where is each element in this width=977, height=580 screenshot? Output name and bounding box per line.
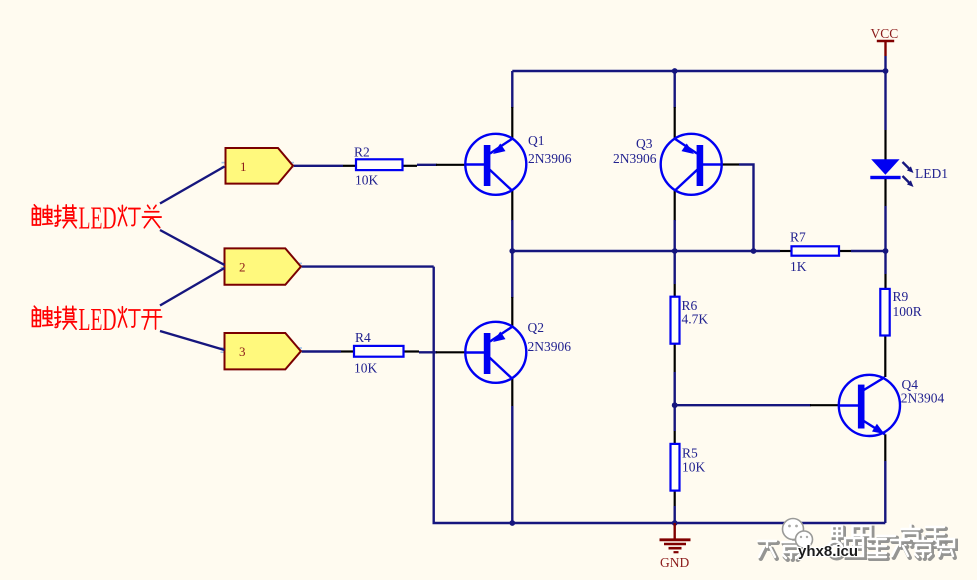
svg-text:2N3906: 2N3906 bbox=[528, 151, 572, 166]
wire LED anode from VCC rail bbox=[884, 71, 886, 160]
svg-text:10K: 10K bbox=[355, 173, 379, 188]
node VCC rail / Q3 junction bbox=[672, 68, 678, 74]
svg-text:GND: GND bbox=[660, 555, 689, 570]
transistor Q3 2N3906 bbox=[661, 134, 722, 195]
svg-text:Q3: Q3 bbox=[636, 136, 653, 151]
watermark row 头条@硬件大不同 bbox=[758, 537, 956, 560]
wire R4 to Q2 base bbox=[404, 350, 466, 353]
svg-text:R7: R7 bbox=[790, 230, 806, 245]
label 触摸LED灯开 red row2 bbox=[32, 301, 161, 337]
transistor Q4 2N3904 bbox=[839, 375, 900, 436]
svg-text:10K: 10K bbox=[682, 459, 706, 474]
svg-text:100R: 100R bbox=[893, 304, 922, 319]
transistor Q2 2N3906 bbox=[465, 322, 526, 383]
svg-text:R2: R2 bbox=[354, 145, 370, 160]
wire Q3 base to mid rail bbox=[721, 165, 753, 252]
svg-text:LED: LED bbox=[79, 301, 117, 337]
wire mid rail to Q2 emitter bbox=[511, 251, 513, 327]
wire label line 1 to port1 bbox=[160, 167, 225, 204]
svg-text:1: 1 bbox=[240, 159, 247, 174]
node mid rail / Q3 base junction bbox=[751, 248, 757, 254]
svg-text:Q1: Q1 bbox=[528, 133, 545, 148]
wire node A to Q4 base bbox=[675, 404, 839, 406]
svg-text:2: 2 bbox=[239, 260, 246, 275]
port 3 bbox=[225, 333, 301, 369]
svg-text:1K: 1K bbox=[790, 259, 807, 274]
wire port1 to R2 bbox=[293, 165, 356, 167]
node VCC rail / LED junction bbox=[883, 68, 889, 74]
wire label line 2 to port2 bbox=[160, 230, 225, 265]
svg-text:LED: LED bbox=[79, 200, 117, 236]
svg-text:R5: R5 bbox=[682, 445, 698, 460]
svg-text:R9: R9 bbox=[893, 289, 909, 304]
wire label line 4 to port3 bbox=[160, 331, 225, 350]
wire port3 to R4 bbox=[301, 350, 354, 352]
wire Q3 collector to mid rail bbox=[674, 191, 676, 252]
svg-text:Q2: Q2 bbox=[528, 320, 545, 335]
svg-text:yhx8.icu: yhx8.icu bbox=[798, 543, 858, 560]
wire node A to R5 bbox=[674, 405, 676, 444]
svg-text:LED1: LED1 bbox=[915, 166, 948, 181]
resistor R9 bbox=[880, 289, 889, 336]
wire R2 to Q1 base bbox=[403, 165, 466, 166]
svg-text:2N3906: 2N3906 bbox=[528, 339, 572, 354]
node bottom rail / GND junction bbox=[672, 520, 678, 526]
wire R5 to bottom rail bbox=[674, 491, 676, 523]
node bottom rail / Q2 junction bbox=[509, 520, 515, 526]
wire bottom rail GND net bbox=[434, 267, 886, 523]
wire Q4 emitter to bottom rail bbox=[884, 434, 886, 523]
resistor R5 bbox=[671, 444, 680, 491]
node mid rail / R6 junction bbox=[672, 248, 678, 254]
ground GND symbol bbox=[660, 523, 691, 570]
watermark logo faces bbox=[783, 519, 813, 549]
svg-text:2N3904: 2N3904 bbox=[901, 391, 945, 406]
wire Q2 collector to bottom rail bbox=[511, 379, 513, 524]
wire Q1 collector to mid rail bbox=[511, 191, 513, 252]
resistor R4 bbox=[354, 346, 404, 357]
svg-text:2N3906: 2N3906 bbox=[613, 151, 657, 166]
port 1 bbox=[226, 148, 294, 184]
svg-text:4.7K: 4.7K bbox=[682, 312, 709, 327]
wire port2 horizontal bbox=[301, 265, 434, 267]
wire R6 to node A bbox=[674, 344, 676, 406]
port 2 bbox=[225, 248, 301, 284]
resistor R7 bbox=[792, 246, 840, 255]
watermark row 电路一点通 bbox=[832, 525, 946, 547]
wire LED cathode to mid rail bbox=[884, 179, 886, 251]
wire mid rail to R9 bbox=[884, 251, 886, 289]
svg-text:10K: 10K bbox=[354, 361, 378, 376]
wire top rail VCC net bbox=[512, 70, 885, 72]
wire Q1 emitter vertical bbox=[511, 71, 513, 139]
power symbol VCC bbox=[871, 26, 899, 71]
resistor R2 bbox=[356, 159, 403, 170]
diode LED1 bbox=[870, 159, 913, 187]
wire mid rail to R6 bbox=[674, 251, 676, 297]
label 触摸LED灯关 red row1 bbox=[32, 200, 161, 236]
wire R9 to Q4 collector bbox=[884, 336, 886, 378]
svg-text:3: 3 bbox=[239, 344, 246, 359]
resistor R6 bbox=[671, 297, 680, 344]
node A R6/R5/Q4-base junction bbox=[672, 402, 678, 408]
port selection ticks bbox=[221, 163, 303, 353]
wire mid rail y=251 bbox=[512, 250, 885, 252]
wire Q3 emitter vertical bbox=[674, 71, 676, 139]
svg-text:R4: R4 bbox=[355, 330, 371, 345]
transistor Q1 2N3906 bbox=[465, 134, 526, 195]
wire label line 3 to port2 bbox=[160, 268, 225, 306]
svg-text:VCC: VCC bbox=[871, 26, 899, 41]
node mid rail / LED-R9 junction bbox=[883, 248, 889, 254]
node mid rail / Q1-Q2 junction bbox=[509, 248, 515, 254]
